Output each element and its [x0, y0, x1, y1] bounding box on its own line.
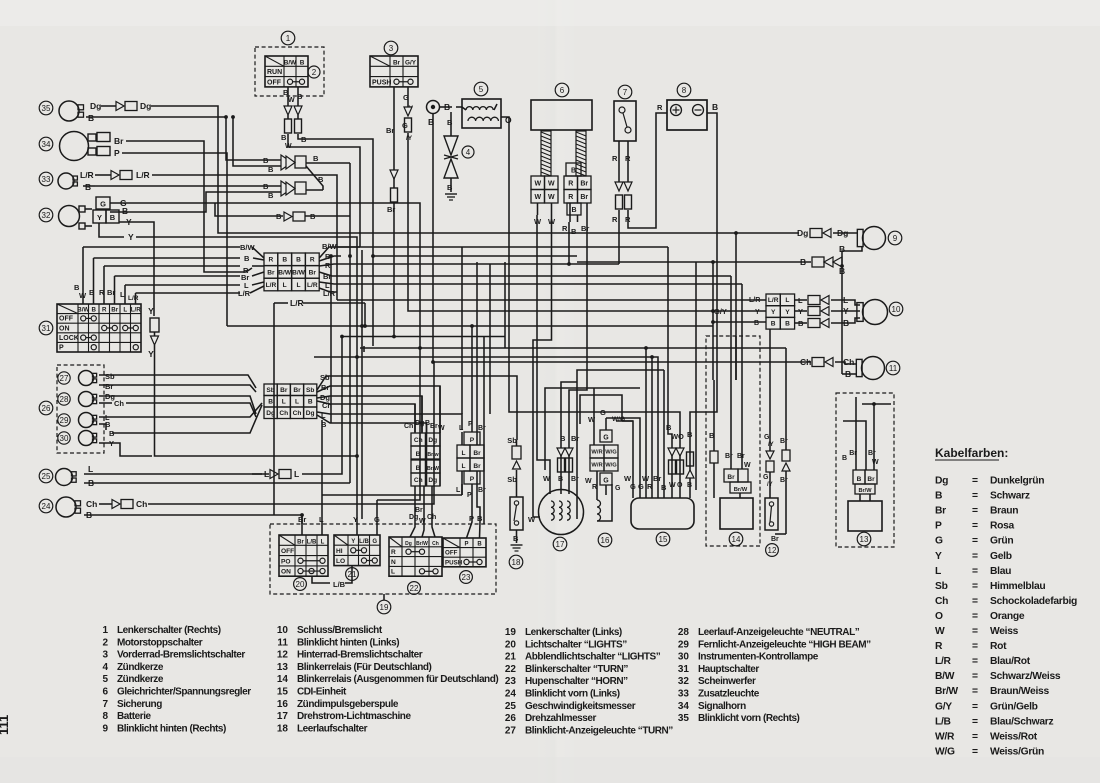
ignition coil terminal — [427, 101, 463, 363]
connector pair B+B lower — [95, 181, 323, 212]
svg-text:Ch: Ch — [279, 410, 288, 417]
svg-text:=: = — [972, 551, 978, 562]
horn 34 Signalhorn — [39, 132, 110, 161]
svg-text:Braun/Weiss: Braun/Weiss — [990, 686, 1049, 697]
svg-text:R: R — [269, 257, 274, 264]
svg-text:Ch: Ch — [293, 410, 302, 417]
svg-text:Br: Br — [393, 59, 401, 66]
svg-text:L: L — [296, 282, 300, 289]
svg-text:4: 4 — [102, 662, 108, 673]
svg-text:P: P — [470, 476, 475, 483]
svg-text:=: = — [972, 506, 978, 517]
flasher relay 14 Blinkerrelais (Ausgenommen fuer Deutschland) — [706, 336, 760, 546]
wires below fuse 7 — [612, 113, 667, 264]
svg-text:25: 25 — [42, 472, 51, 481]
svg-text:Br/W: Br/W — [858, 488, 872, 494]
svg-text:B: B — [712, 102, 718, 112]
svg-text:4: 4 — [466, 148, 471, 157]
wire B distribution vertical — [330, 256, 332, 423]
wires below 6 — [534, 203, 589, 236]
svg-text:R: R — [935, 641, 943, 652]
svg-text:Grün/Gelb: Grün/Gelb — [990, 701, 1038, 712]
wires above main switch 31 — [74, 247, 139, 304]
svg-text:Y: Y — [771, 309, 776, 316]
svg-text:ON: ON — [281, 569, 291, 576]
svg-text:B: B — [282, 257, 287, 264]
svg-text:Br: Br — [780, 438, 788, 445]
svg-text:Sb: Sb — [507, 475, 517, 484]
svg-text:1: 1 — [286, 34, 291, 43]
svg-text:B: B — [754, 320, 759, 327]
svg-text:=: = — [972, 701, 978, 712]
svg-text:B: B — [571, 227, 577, 236]
indicator lamp 30 — [58, 431, 97, 446]
svg-text:P: P — [464, 542, 468, 548]
connector G of headlamp — [96, 197, 110, 209]
svg-text:B: B — [313, 154, 319, 163]
svg-text:3: 3 — [102, 650, 108, 661]
svg-text:Blinklicht hinten (Rechts): Blinklicht hinten (Rechts) — [117, 723, 226, 734]
svg-text:Br: Br — [309, 269, 317, 276]
svg-text:7: 7 — [623, 88, 628, 97]
wire vertical x362 — [361, 250, 363, 519]
svg-text:26: 26 — [42, 404, 51, 413]
svg-text:Blinkerschalter “TURN”: Blinkerschalter “TURN” — [525, 664, 628, 675]
svg-text:R: R — [568, 194, 573, 201]
svg-text:11: 11 — [889, 364, 898, 373]
svg-text:OFF: OFF — [281, 548, 294, 555]
svg-text:Br: Br — [415, 507, 423, 514]
wire O from coil 5 — [501, 115, 680, 444]
pickup coil 16 Zuendimpulsgeberspule — [585, 388, 633, 547]
svg-text:Batterie: Batterie — [117, 711, 152, 722]
svg-text:Hupenschalter “HORN”: Hupenschalter “HORN” — [525, 676, 628, 687]
svg-text:Rosa: Rosa — [990, 521, 1015, 532]
svg-text:Br: Br — [771, 536, 779, 543]
wire W from switch 1 — [288, 134, 360, 247]
wire G from headlamp — [110, 198, 420, 352]
svg-text:=: = — [972, 536, 978, 547]
svg-text:L: L — [461, 463, 465, 470]
svg-text:Br: Br — [473, 463, 481, 470]
svg-text:P: P — [935, 521, 942, 532]
wires from indicator lamps — [99, 372, 262, 456]
svg-text:Br: Br — [571, 476, 579, 483]
wires below switch 1 — [281, 87, 307, 150]
svg-text:Ch: Ch — [414, 437, 423, 444]
svg-text:27: 27 — [60, 374, 69, 383]
svg-text:Motorstoppschalter: Motorstoppschalter — [117, 637, 203, 648]
svg-text:RUN: RUN — [267, 69, 282, 76]
svg-text:33: 33 — [42, 175, 51, 184]
svg-text:Schluss/Bremslicht: Schluss/Bremslicht — [297, 625, 383, 636]
connector W W of 6 — [531, 176, 558, 203]
svg-text:Br: Br — [581, 224, 589, 233]
svg-text:8: 8 — [682, 86, 687, 95]
svg-text:Br/w: Br/w — [427, 452, 439, 458]
wires into switch block — [298, 500, 483, 535]
svg-text:L/R: L/R — [80, 170, 94, 180]
svg-text:PUSH: PUSH — [372, 79, 391, 86]
svg-text:Br: Br — [737, 453, 745, 460]
svg-text:18: 18 — [277, 723, 289, 734]
svg-text:9: 9 — [893, 234, 898, 243]
legend list — [102, 625, 871, 736]
svg-text:L/R: L/R — [128, 295, 139, 302]
turn switch 22 TURN — [389, 537, 442, 594]
svg-text:L: L — [785, 297, 789, 304]
svg-text:Instrumenten-Kontrollampe: Instrumenten-Kontrollampe — [698, 652, 819, 663]
svg-text:HI: HI — [336, 548, 343, 555]
svg-text:29: 29 — [60, 416, 69, 425]
svg-text:Blinklicht-Anzeigeleuchte “TUR: Blinklicht-Anzeigeleuchte “TURN” — [525, 725, 673, 736]
svg-text:G: G — [603, 435, 609, 442]
svg-text:Schwarz: Schwarz — [990, 491, 1030, 502]
svg-text:R: R — [657, 103, 663, 112]
svg-text:P: P — [114, 148, 120, 158]
flasher relay 13 Blinkerrelais (Fuer Deutschland) — [836, 393, 894, 547]
svg-text:13: 13 — [860, 535, 869, 544]
svg-text:Blau/Schwarz: Blau/Schwarz — [990, 716, 1054, 727]
lamp 9 Blinklicht hinten (Rechts) — [857, 227, 901, 250]
svg-text:L/B: L/B — [307, 539, 317, 545]
wire Y to switch 21 — [356, 357, 358, 512]
wire B from lamp 24 — [84, 510, 302, 524]
wire L/R from lamp 33 — [80, 170, 337, 300]
svg-text:17: 17 — [556, 540, 565, 549]
svg-text:=: = — [972, 581, 978, 592]
svg-text:19: 19 — [380, 603, 389, 612]
svg-text:P: P — [469, 514, 474, 523]
fuse 7 Sicherung — [614, 85, 636, 141]
svg-text:B: B — [687, 482, 692, 489]
svg-text:Rot: Rot — [990, 641, 1007, 652]
svg-text:Drehstrom-Lichtmaschine: Drehstrom-Lichtmaschine — [297, 711, 411, 722]
svg-text:Blinkerrelais (Für Deutschland: Blinkerrelais (Für Deutschland) — [297, 662, 432, 673]
wire B right from switch 1 — [298, 134, 373, 256]
alternator 17 Drehstrom-Lichtmaschine — [539, 490, 584, 551]
svg-text:Ch: Ch — [136, 499, 147, 509]
svg-text:Vorderrad-Bremslichtschalter: Vorderrad-Bremslichtschalter — [117, 650, 245, 661]
lamp 35 Blinklicht vorn (Rechts) — [39, 101, 83, 121]
svg-text:1: 1 — [102, 625, 108, 636]
svg-text:Blinkerrelais (Ausgenommen für: Blinkerrelais (Ausgenommen für Deutschla… — [297, 674, 498, 685]
svg-text:B: B — [318, 175, 324, 184]
svg-text:L/R: L/R — [307, 282, 318, 289]
wire G to switch 21 — [377, 352, 420, 500]
svg-text:Br/W: Br/W — [427, 466, 439, 472]
svg-text:L: L — [294, 469, 299, 479]
svg-text:O: O — [678, 432, 684, 441]
svg-text:W: W — [534, 194, 541, 201]
svg-text:3: 3 — [389, 44, 394, 53]
ignition coil 5 — [462, 82, 501, 128]
svg-text:28: 28 — [678, 627, 690, 638]
svg-text:Br: Br — [867, 476, 875, 483]
svg-text:=: = — [972, 611, 978, 622]
wire B to block C — [713, 262, 766, 322]
svg-text:W: W — [669, 482, 676, 489]
svg-text:22: 22 — [410, 584, 419, 593]
svg-text:W/R: W/R — [591, 450, 603, 456]
svg-text:B: B — [857, 476, 862, 483]
svg-text:B: B — [477, 514, 483, 523]
svg-text:Zündkerze: Zündkerze — [117, 662, 164, 673]
svg-text:L: L — [282, 399, 286, 406]
svg-text:13: 13 — [277, 662, 289, 673]
svg-text:24: 24 — [42, 502, 51, 511]
svg-text:Br: Br — [114, 136, 124, 146]
svg-text:ON: ON — [59, 325, 70, 332]
svg-text:Weiss: Weiss — [990, 626, 1019, 637]
svg-text:111: 111 — [0, 715, 11, 735]
svg-text:Ch: Ch — [432, 541, 439, 547]
svg-text:L/R: L/R — [131, 307, 141, 314]
wire Ch to lamp 11 — [434, 357, 857, 379]
svg-text:L/R: L/R — [935, 656, 952, 667]
wire Y upper from headlamp — [119, 217, 154, 316]
wires from main switch to bus — [83, 247, 240, 293]
wire Dg from lamp 35 — [90, 101, 799, 233]
svg-text:Sicherung: Sicherung — [117, 699, 162, 710]
connector block A — [264, 253, 319, 291]
wire B from battery — [690, 102, 718, 444]
svg-text:Blau/Rot: Blau/Rot — [990, 656, 1031, 667]
wire B from lamp 25 — [84, 478, 350, 488]
wires above CDI 15 — [606, 348, 667, 498]
svg-text:Zündkerze: Zündkerze — [117, 674, 164, 685]
connector single B — [215, 203, 350, 221]
svg-text:L: L — [391, 569, 395, 576]
wire Ch from lamp 24 — [86, 362, 434, 509]
connector R Br of 6 — [564, 163, 591, 215]
wire L/R to block C — [337, 299, 766, 301]
svg-text:O: O — [677, 482, 683, 489]
svg-text:Drehzahlmesser: Drehzahlmesser — [525, 713, 597, 724]
svg-text:Schockoladefarbig: Schockoladefarbig — [990, 596, 1077, 607]
svg-text:22: 22 — [505, 664, 517, 675]
svg-text:5: 5 — [102, 674, 108, 685]
connector wires right of CDI — [666, 418, 694, 498]
svg-text:B: B — [88, 113, 94, 123]
svg-text:OFF: OFF — [445, 550, 458, 557]
svg-text:B/W: B/W — [284, 59, 297, 66]
svg-text:14: 14 — [732, 535, 741, 544]
svg-text:Kabelfarben:: Kabelfarben: — [935, 446, 1008, 460]
spark gap 4 Zuendkerze — [444, 112, 474, 200]
wire Br from switch 3 — [386, 87, 398, 337]
svg-text:/Y: /Y — [768, 442, 774, 448]
svg-text:18: 18 — [512, 558, 521, 567]
lamp 24 Blinklicht vorn (Links) — [39, 497, 80, 517]
wire L/R below block A — [290, 298, 365, 308]
svg-text:B/W: B/W — [278, 269, 292, 276]
wire L/B link — [312, 566, 352, 589]
connector on wire L — [108, 336, 342, 479]
svg-text:Br/W: Br/W — [734, 487, 748, 493]
svg-text:B: B — [571, 207, 576, 214]
svg-text:26: 26 — [505, 713, 517, 724]
svg-text:B: B — [687, 430, 693, 439]
svg-text:G: G — [763, 474, 769, 481]
svg-text:G: G — [372, 539, 377, 545]
svg-text:OFF: OFF — [267, 79, 282, 86]
svg-text:Br: Br — [430, 423, 438, 430]
svg-text:Br: Br — [105, 382, 113, 391]
svg-text:L/B: L/B — [935, 716, 951, 727]
svg-text:12: 12 — [768, 546, 777, 555]
svg-text:Hauptschalter: Hauptschalter — [698, 664, 759, 675]
svg-text:L: L — [461, 450, 465, 457]
connector stack Ch Dg — [404, 386, 445, 537]
svg-text:W: W — [288, 97, 295, 104]
svg-text:Y: Y — [755, 309, 760, 316]
svg-text:Fernlicht-Anzeigeleuchte “HIGH: Fernlicht-Anzeigeleuchte “HIGH BEAM” — [698, 639, 871, 650]
svg-text:Br: Br — [478, 487, 486, 494]
indicator lamp 29 — [58, 413, 97, 428]
svg-text:=: = — [972, 656, 978, 667]
svg-text:R: R — [310, 257, 315, 264]
svg-text:B: B — [281, 133, 287, 142]
svg-text:Y: Y — [148, 306, 154, 316]
svg-text:Dg: Dg — [797, 228, 808, 238]
svg-text:L: L — [456, 487, 461, 494]
svg-text:G: G — [600, 408, 606, 417]
svg-text:G: G — [615, 485, 621, 492]
svg-text:B: B — [785, 321, 790, 328]
svg-text:30: 30 — [60, 434, 69, 443]
svg-text:Br: Br — [780, 477, 788, 484]
svg-text:Ch: Ch — [414, 477, 423, 484]
svg-text:Leerlauf-Anzeigeleuchte “NEUTR: Leerlauf-Anzeigeleuchte “NEUTRAL” — [698, 627, 860, 638]
svg-text:=: = — [972, 731, 978, 742]
wire B from lamp 35 — [86, 113, 226, 123]
lamp 11 Blinklicht hinten (Links) — [856, 357, 899, 380]
switch 1 Lenkerschalter (Rechts) engine stop — [255, 31, 324, 96]
svg-text:R: R — [612, 154, 618, 163]
svg-text:=: = — [972, 746, 978, 757]
svg-text:Zündimpulsgeberspule: Zündimpulsgeberspule — [297, 699, 399, 710]
svg-text:Y: Y — [97, 213, 102, 222]
svg-text:G/Y: G/Y — [405, 59, 417, 66]
indicator lamp 27 — [58, 371, 97, 386]
svg-text:B: B — [300, 59, 305, 66]
svg-text:35: 35 — [42, 104, 51, 113]
svg-text:B/W: B/W — [292, 269, 306, 276]
svg-text:=: = — [972, 641, 978, 652]
svg-text:G: G — [764, 434, 770, 441]
wire Br to switch 20 — [301, 515, 303, 524]
lamp 25 Geschwindigkeitsmesser light — [39, 469, 76, 486]
svg-text:2: 2 — [312, 68, 317, 77]
connector B B — [577, 257, 845, 374]
svg-text:W/G: W/G — [612, 416, 625, 423]
svg-text:L/B: L/B — [359, 539, 369, 545]
wire L/R drop — [274, 303, 288, 515]
svg-text:W: W — [935, 626, 945, 637]
svg-text:W/G: W/G — [605, 450, 617, 456]
svg-text:17: 17 — [277, 711, 289, 722]
svg-text:21: 21 — [505, 652, 517, 663]
CDI magneto 6 — [531, 83, 592, 130]
connector block B right labels and wires — [317, 373, 517, 440]
svg-text:Br: Br — [571, 434, 579, 443]
svg-text:L: L — [459, 425, 464, 432]
svg-text:Dg: Dg — [306, 410, 315, 417]
svg-text:27: 27 — [505, 725, 517, 736]
svg-text:Dg: Dg — [428, 477, 437, 484]
wires above alternator 17 — [528, 215, 587, 524]
svg-text:Ch: Ch — [935, 596, 948, 607]
connector block C — [749, 294, 795, 329]
svg-text:Br: Br — [267, 269, 275, 276]
connector block B — [264, 384, 317, 419]
svg-text:=: = — [972, 686, 978, 697]
svg-text:Br: Br — [297, 539, 304, 545]
svg-text:Br: Br — [386, 126, 394, 135]
svg-text:25: 25 — [505, 701, 517, 712]
svg-text:W: W — [534, 180, 541, 187]
svg-text:Ch: Ch — [404, 423, 413, 430]
svg-text:Weiss/Rot: Weiss/Rot — [990, 731, 1038, 742]
svg-text:R: R — [102, 307, 107, 314]
svg-text:W: W — [588, 415, 596, 424]
svg-text:Weiss/Grün: Weiss/Grün — [990, 746, 1044, 757]
svg-text:Lenkerschalter (Rechts): Lenkerschalter (Rechts) — [117, 625, 221, 636]
svg-text:Br: Br — [111, 307, 118, 314]
svg-text:/Y: /Y — [406, 135, 413, 142]
svg-text:Blinklicht vorn (Links): Blinklicht vorn (Links) — [525, 689, 620, 700]
svg-text:31: 31 — [42, 324, 51, 333]
svg-text:Blau: Blau — [990, 566, 1011, 577]
svg-text:Sb: Sb — [105, 372, 115, 381]
svg-text:=: = — [972, 566, 978, 577]
neutral switch 18 Leerlaufschalter — [507, 436, 523, 569]
svg-text:11: 11 — [277, 637, 288, 648]
svg-text:Geschwindigkeitsmesser: Geschwindigkeitsmesser — [525, 701, 636, 712]
svg-text:PUSH: PUSH — [445, 559, 463, 566]
connector stack L P Br — [322, 262, 486, 538]
svg-text:P: P — [470, 437, 475, 444]
svg-text:B: B — [308, 399, 313, 406]
svg-text:33: 33 — [678, 689, 690, 700]
svg-text:R: R — [562, 224, 568, 233]
svg-text:B: B — [122, 206, 128, 216]
wire L from lamp 25 — [84, 464, 108, 474]
svg-text:20: 20 — [296, 580, 305, 589]
svg-text:2: 2 — [102, 637, 108, 648]
svg-text:Blinklicht vorn (Rechts): Blinklicht vorn (Rechts) — [698, 713, 800, 724]
svg-text:24: 24 — [505, 689, 517, 700]
svg-text:L/B: L/B — [333, 580, 346, 589]
svg-text:Br: Br — [473, 450, 481, 457]
svg-text:Sb: Sb — [306, 387, 314, 394]
svg-text:23: 23 — [505, 676, 517, 687]
svg-text:W: W — [744, 462, 751, 469]
lamp 10 Scheinwerfer hinten — [857, 300, 903, 325]
svg-text:12: 12 — [277, 650, 289, 661]
svg-text:W: W — [438, 425, 445, 432]
svg-text:=: = — [972, 596, 978, 607]
svg-text:Br: Br — [653, 474, 661, 483]
wire L to switch 20 — [321, 420, 323, 510]
svg-text:Sb: Sb — [507, 436, 517, 445]
svg-text:Dg: Dg — [428, 437, 437, 444]
svg-text:Dunkelgrün: Dunkelgrün — [990, 476, 1044, 487]
svg-text:=: = — [972, 521, 978, 532]
svg-text:L: L — [321, 539, 325, 545]
svg-text:Br: Br — [580, 180, 588, 187]
